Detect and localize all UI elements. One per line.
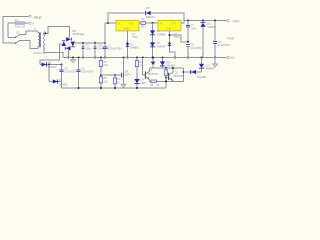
node R6 bottom junction <box>114 87 116 89</box>
node Da bus junction <box>152 57 154 59</box>
svg-text:GND: GND <box>166 27 172 31</box>
wire primary bottom lead <box>37 46 39 48</box>
zener D3 on U1 gnd <box>126 44 129 47</box>
svg-text:470uF/35V: 470uF/35V <box>218 44 231 47</box>
svg-text:2200uF/35V: 2200uF/35V <box>108 47 122 51</box>
transformer T1 secondary winding <box>44 32 46 49</box>
node C3 bus junction <box>94 57 96 59</box>
ground symbol left <box>70 58 75 63</box>
wire fuse lead right <box>24 22 29 24</box>
wire switch feed b <box>3 42 16 44</box>
svg-text:100uF/35V: 100uF/35V <box>81 71 94 74</box>
wire D7 branch drop <box>48 65 50 82</box>
svg-text:100n: 100n <box>86 47 92 51</box>
wire secondary top to bridge N <box>44 27 70 37</box>
node D7 branch <box>48 64 50 66</box>
node Q2 collector junction <box>172 67 174 69</box>
node C9 bus junction <box>214 57 216 59</box>
node rail riser junction <box>104 42 106 44</box>
svg-text:BC547A: BC547A <box>148 73 158 76</box>
ground symbol middle <box>121 84 126 87</box>
fuse F1 <box>16 22 25 25</box>
bridge rectifier B1 <box>62 37 75 50</box>
node D10 bus junction <box>162 57 164 59</box>
node limiter junction <box>182 71 184 73</box>
transistor Q2 <box>169 68 173 81</box>
resistor R7 column <box>164 68 167 88</box>
svg-text:GND: GND <box>124 27 130 31</box>
capacitor C7 column <box>186 21 190 58</box>
zener D14 <box>168 43 172 46</box>
capacitor C1 riser <box>103 23 108 58</box>
node U1 gnd bus junction <box>127 57 129 59</box>
node D6 cap junction <box>61 64 63 66</box>
node divider tap <box>100 74 102 76</box>
svg-text:1N4004: 1N4004 <box>205 68 214 71</box>
node C4 bus junction <box>123 57 125 59</box>
node C1 bus junction <box>104 57 106 59</box>
wire C4 column <box>123 58 125 85</box>
svg-text:1N4148: 1N4148 <box>197 76 206 79</box>
wire U2 GND column <box>170 31 176 58</box>
switch S1 pole a <box>15 34 20 38</box>
diode D8 <box>150 30 155 34</box>
switch S1 pole b <box>15 40 20 44</box>
capacitor C2 <box>81 43 84 58</box>
node D12 bus junction <box>201 57 203 59</box>
node AC terminal 2 <box>29 22 31 24</box>
capacitor C4 <box>122 73 124 78</box>
svg-text:7805: 7805 <box>174 35 180 39</box>
diode D11 column <box>200 21 205 58</box>
node R5 bottom junction <box>100 87 102 89</box>
svg-text:2A Bridge: 2A Bridge <box>73 32 85 36</box>
resistor R5 <box>99 77 102 83</box>
node LED column junction <box>136 57 138 59</box>
wire collector net <box>150 67 184 69</box>
svg-text:D5: D5 <box>146 6 150 10</box>
diode D13 <box>183 70 201 74</box>
node U1 gnd tap <box>127 42 129 44</box>
svg-text:1N4004: 1N4004 <box>146 15 156 19</box>
node divider top junction <box>100 57 102 59</box>
node diode chain bus junction <box>152 57 154 59</box>
wire Q2 base <box>166 77 169 79</box>
wire switch a to primary <box>20 31 38 34</box>
node C2 bus junction <box>82 57 84 59</box>
diode D5 <box>146 11 151 15</box>
wire U1 out to U2 in <box>139 22 158 24</box>
wire U1 input <box>105 22 116 24</box>
svg-text:4R7: 4R7 <box>141 24 146 28</box>
regulator U2 7805 <box>158 20 181 31</box>
node top rail tap <box>107 22 109 24</box>
transformer T1 core <box>39 32 41 48</box>
svg-text:1N4148: 1N4148 <box>166 65 175 68</box>
svg-text:1N4004: 1N4004 <box>157 33 166 36</box>
svg-text:+: + <box>101 43 103 47</box>
node rail C9 junction <box>214 20 216 22</box>
diode D10 <box>160 58 165 69</box>
wire ground bus 0V <box>64 57 227 59</box>
svg-text:+24V: +24V <box>232 19 241 23</box>
node output terminal 24V <box>227 19 229 21</box>
node rail C2 junction <box>82 42 84 44</box>
svg-text:Q2: Q2 <box>175 71 179 74</box>
wire divider tap run <box>101 74 121 76</box>
svg-text:100n: 100n <box>125 74 131 77</box>
wire U1 GND drop <box>127 31 129 58</box>
node C6 bottom junction <box>78 87 80 89</box>
svg-text:BC547B: BC547B <box>174 75 184 78</box>
capacitor C8 <box>186 44 190 46</box>
ground symbol right <box>212 58 217 68</box>
node R7 top junction <box>165 67 167 69</box>
transistor Q1 <box>145 68 149 81</box>
wire bridge W to lower left <box>40 44 61 65</box>
svg-text:IN: IN <box>160 22 163 26</box>
wire bridge S drop <box>67 50 69 58</box>
wire output rail 24V <box>184 20 227 22</box>
diode D6 <box>40 62 62 66</box>
wire U2 output <box>181 13 184 23</box>
node U2 gnd bus junction <box>174 57 176 59</box>
svg-text:Fuse 1A: Fuse 1A <box>15 25 26 29</box>
resistor R6 column <box>113 75 116 88</box>
wire left AC rail <box>2 16 4 43</box>
wire fuse drop <box>7 23 9 37</box>
node rail C7 junction <box>187 20 189 22</box>
node rail D11 junction <box>202 20 204 22</box>
svg-text:OUT: OUT <box>129 22 135 26</box>
svg-text:R1: R1 <box>141 17 145 21</box>
transformer T1 primary winding <box>38 33 40 47</box>
node secondary top lead <box>44 32 46 34</box>
diode Da chain below bus <box>151 58 156 69</box>
wire diode chain <box>152 23 154 58</box>
wire switch b to primary <box>20 40 38 48</box>
node C6 bus junction <box>78 57 80 59</box>
node C8 top junction <box>187 41 189 43</box>
resistor R3 column <box>135 58 138 89</box>
svg-text:1N4003: 1N4003 <box>59 83 68 86</box>
wire fuse lead left <box>8 22 16 24</box>
wire top rail to corner <box>151 13 184 21</box>
node rail C3 junction <box>94 42 96 44</box>
regulator U1 7812 <box>116 20 139 31</box>
node AC terminal 1 <box>29 15 31 17</box>
svg-text:Vout: Vout <box>227 36 234 40</box>
node output terminal 0V <box>227 56 229 58</box>
wire collector corner <box>182 68 184 81</box>
capacitor C9 column <box>213 21 217 58</box>
node U2 gnd branch junction <box>169 34 171 36</box>
wire primary top lead <box>37 31 39 33</box>
node R6 tap junction <box>114 74 116 76</box>
svg-text:100n: 100n <box>191 27 197 30</box>
diode D7 <box>49 79 62 83</box>
resistor R4 column <box>99 58 102 89</box>
svg-text:1N4004: 1N4004 <box>157 45 166 48</box>
svg-text:OUT: OUT <box>171 22 177 26</box>
svg-text:Tr1: Tr1 <box>36 16 41 20</box>
node emitter bus junction <box>165 80 167 82</box>
capacitor C3 <box>93 43 96 58</box>
capacitor C5 column <box>59 65 63 89</box>
node Q2 base junction <box>165 77 167 79</box>
LED D4 <box>134 79 139 84</box>
svg-text:S1: S1 <box>16 31 20 35</box>
diode D9 <box>150 42 155 46</box>
svg-text:7812: 7812 <box>132 35 138 39</box>
diode D12 <box>199 58 204 73</box>
wire switch feed a <box>8 36 16 38</box>
svg-text:LED: LED <box>141 82 146 85</box>
resistor R8 <box>150 80 184 83</box>
node Q1 base column junction <box>142 57 144 59</box>
node bridge S junction <box>67 57 69 59</box>
svg-text:10uF/35V: 10uF/35V <box>191 47 202 50</box>
svg-text:IN: IN <box>118 22 121 26</box>
node earth junction left <box>72 57 74 59</box>
node C8 bus junction <box>187 57 189 59</box>
svg-text:1N4001: 1N4001 <box>130 47 139 50</box>
wire AC line 1 top <box>3 15 29 17</box>
wire secondary bottom to bus <box>44 46 63 58</box>
wire bottom negative bus <box>62 87 167 89</box>
wire bridge E positive rail <box>75 42 105 44</box>
node diode chain tap <box>152 22 154 24</box>
capacitor C6 column <box>76 58 80 89</box>
wire Q1 base feed <box>143 58 146 75</box>
wire top rail riser <box>108 13 146 23</box>
node LED bottom junction <box>136 87 138 89</box>
wire U2 gnd branch <box>170 35 189 42</box>
resistor R1 <box>141 22 146 25</box>
